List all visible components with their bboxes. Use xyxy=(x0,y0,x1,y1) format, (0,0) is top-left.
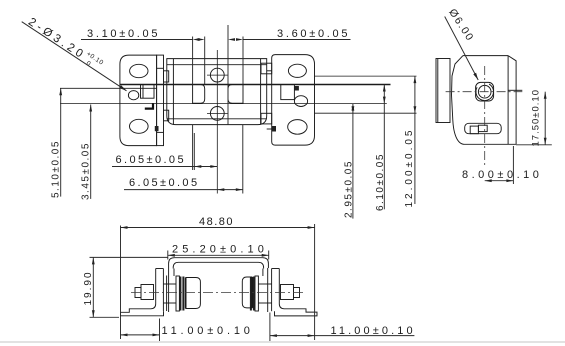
line B full width xyxy=(120,84,391,86)
left tabs xyxy=(164,71,169,82)
dim 6.05 upper xyxy=(112,133,217,170)
grey base line xyxy=(0,341,565,343)
svg-text:11.00±0.10: 11.00±0.10 xyxy=(331,325,416,337)
center vertical line xyxy=(216,50,218,194)
left plate hole top xyxy=(130,64,148,77)
right tabs xyxy=(261,63,272,74)
svg-text:6.05±0.05: 6.05±0.05 xyxy=(129,177,199,189)
dim 48.80 xyxy=(121,224,315,340)
right slot xyxy=(228,85,243,104)
bottom circle xyxy=(210,107,224,121)
left bridge leg lower xyxy=(168,268,170,312)
bottom centerline xyxy=(131,291,304,293)
svg-text:6.05±0.05: 6.05±0.05 xyxy=(116,154,186,166)
side centerlines xyxy=(446,66,523,168)
arrows 3.10 xyxy=(193,38,200,41)
svg-text:12.00±0.05: 12.00±0.05 xyxy=(404,128,415,208)
latch slot xyxy=(465,123,502,133)
BOTTOM VIEW xyxy=(121,258,318,316)
body outline xyxy=(167,59,267,125)
DIMENSIONS TOP xyxy=(81,25,351,194)
right plate hole bottom xyxy=(288,120,307,135)
left plate xyxy=(120,55,157,146)
left plate small hole xyxy=(128,91,138,100)
leader dia 6.00 xyxy=(445,7,479,80)
svg-text:11.00±0.10: 11.00±0.10 xyxy=(162,325,254,337)
dim 11.00 left xyxy=(121,319,160,342)
left foot xyxy=(121,269,164,316)
svg-text:5.10±0.05: 5.10±0.05 xyxy=(51,140,62,198)
right tab xyxy=(281,285,294,300)
SIDE VIEW xyxy=(436,56,522,145)
line C full width xyxy=(60,103,387,105)
side body outline xyxy=(463,55,508,57)
dim 12.00 xyxy=(414,76,416,204)
right washers xyxy=(255,276,258,311)
left screw box lines xyxy=(163,283,176,285)
svg-text:17.50±0.10: 17.50±0.10 xyxy=(531,89,542,146)
nut xyxy=(476,82,494,101)
dim 25.20 xyxy=(168,251,269,260)
dim 3.60 line xyxy=(243,39,351,41)
side arm rect xyxy=(436,59,450,123)
dim 2.95 xyxy=(352,104,354,219)
left tab xyxy=(141,285,154,300)
svg-text:2-Ø3.20: 2-Ø3.20 xyxy=(26,16,88,62)
right roller xyxy=(242,277,252,308)
left plate hole bottom xyxy=(130,119,149,133)
dim 5.10 xyxy=(60,88,62,196)
svg-text:8.00±0.10: 8.00±0.10 xyxy=(462,169,542,181)
leader 2-3.20 xyxy=(22,14,127,91)
right plate hole top xyxy=(288,64,306,77)
nut tick right xyxy=(508,89,522,91)
ext below body xyxy=(192,125,194,170)
top circle xyxy=(210,68,224,82)
svg-text:3.10±0.05: 3.10±0.05 xyxy=(87,28,160,40)
bridge outer xyxy=(169,258,269,268)
svg-text:6.10±0.05: 6.10±0.05 xyxy=(375,153,386,211)
bridge inner xyxy=(173,262,263,268)
svg-text:3.45±0.05: 3.45±0.05 xyxy=(81,142,92,200)
svg-text:25.20±0.10: 25.20±0.10 xyxy=(172,244,268,256)
left latch rect xyxy=(141,85,155,99)
right latch rect xyxy=(281,85,295,100)
dim 11.00 right xyxy=(270,313,415,342)
dim 3.10 line xyxy=(81,39,193,41)
svg-text:48.80: 48.80 xyxy=(199,216,234,228)
right bridge leg lower xyxy=(267,268,269,312)
left slot xyxy=(193,85,205,104)
right plate small hole xyxy=(294,96,307,107)
right strip ticks xyxy=(267,70,272,72)
left dark L mark xyxy=(145,103,153,109)
dim 6.10 xyxy=(383,85,385,210)
dim 17.50 xyxy=(516,92,552,145)
dim 3.45 xyxy=(90,105,92,199)
dim 19.90 xyxy=(90,257,168,317)
right dark square xyxy=(294,86,299,91)
svg-text:3.60±0.05: 3.60±0.05 xyxy=(277,28,350,40)
right screw box lines xyxy=(258,283,271,285)
line D right xyxy=(315,112,417,114)
right plate xyxy=(272,55,315,146)
svg-text:2.95±0.05: 2.95±0.05 xyxy=(344,160,355,218)
svg-text:19.90: 19.90 xyxy=(83,270,94,305)
left plate strip xyxy=(157,55,164,146)
dim 8.00 xyxy=(485,146,514,184)
right foot xyxy=(275,269,318,316)
svg-text:Ø6.00: Ø6.00 xyxy=(446,7,476,44)
left dark nub at body bottom xyxy=(155,126,159,131)
dim 6.05 lower xyxy=(124,189,243,191)
line E left xyxy=(60,87,157,89)
left washers xyxy=(176,276,179,311)
arrows 3.60 xyxy=(228,38,235,41)
left roller xyxy=(186,278,200,309)
line A right xyxy=(315,75,417,77)
right dark nub at body bottom xyxy=(272,126,276,132)
